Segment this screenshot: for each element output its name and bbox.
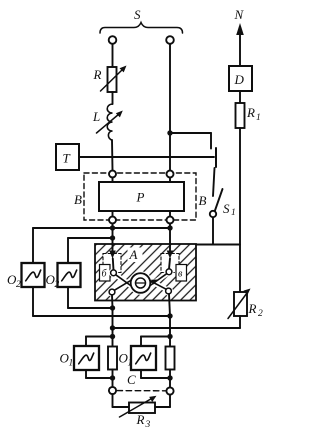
svg-text:R: R [248,301,257,316]
svg-text:1: 1 [256,113,261,123]
svg-text:2: 2 [258,309,263,319]
svg-text:N: N [234,7,245,22]
svg-text:R: R [93,67,102,82]
svg-text:R: R [246,105,255,120]
svg-text:R: R [136,412,145,427]
svg-text:B: B [74,192,82,207]
svg-text:D: D [234,72,245,87]
svg-text:1: 1 [231,208,236,218]
svg-text:1: 1 [69,359,74,369]
svg-text:T: T [63,151,71,166]
svg-text:C: C [127,372,136,387]
svg-text:S: S [223,201,230,216]
svg-text:2: 2 [16,280,21,290]
svg-text:1: 1 [128,359,133,369]
svg-text:в: в [178,269,183,280]
svg-text:3: 3 [145,420,151,430]
svg-text:A: A [129,247,138,262]
svg-text:L: L [92,109,100,124]
svg-text:B: B [199,193,207,208]
svg-text:2: 2 [55,280,60,290]
svg-text:P: P [136,190,145,205]
svg-text:S: S [134,7,141,22]
